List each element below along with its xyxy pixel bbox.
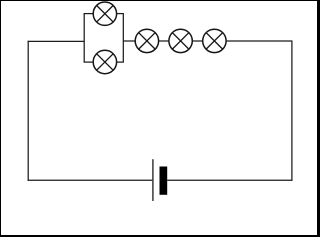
lamp 2 (lower parallel branch) (93, 50, 116, 73)
wire: bottom-left horizontal segment (to battery long plate) (28, 179, 153, 181)
wire: bottom-right horizontal segment (from battery short plate) (167, 179, 292, 181)
wire: right vertical side (291, 41, 293, 181)
battery cell: long thin positive plate (152, 159, 154, 201)
wire: between series lamp 2 and lamp 3 (192, 40, 202, 42)
node: parallel branch left junction (83, 14, 85, 63)
wire: upper branch right lead (117, 13, 124, 15)
wire: lower branch right lead (117, 61, 124, 63)
wire: between series lamp 1 and lamp 2 (159, 40, 169, 42)
node: parallel branch right junction (122, 14, 124, 63)
battery cell: short thick negative plate (160, 167, 168, 195)
wire: top-right horizontal segment (226, 40, 292, 42)
wire: parallel block to first series lamp (123, 40, 135, 42)
wire: left vertical side (27, 41, 29, 181)
wire: lower branch left lead (84, 61, 94, 63)
wire: upper branch left lead (84, 13, 94, 15)
lamp 5 (third series lamp) (203, 29, 226, 52)
wire: top-left horizontal segment (28, 40, 84, 42)
lamp 1 (upper parallel branch) (93, 2, 116, 25)
lamp 4 (second series lamp) (169, 29, 192, 52)
lamp 3 (first series lamp) (135, 29, 158, 52)
